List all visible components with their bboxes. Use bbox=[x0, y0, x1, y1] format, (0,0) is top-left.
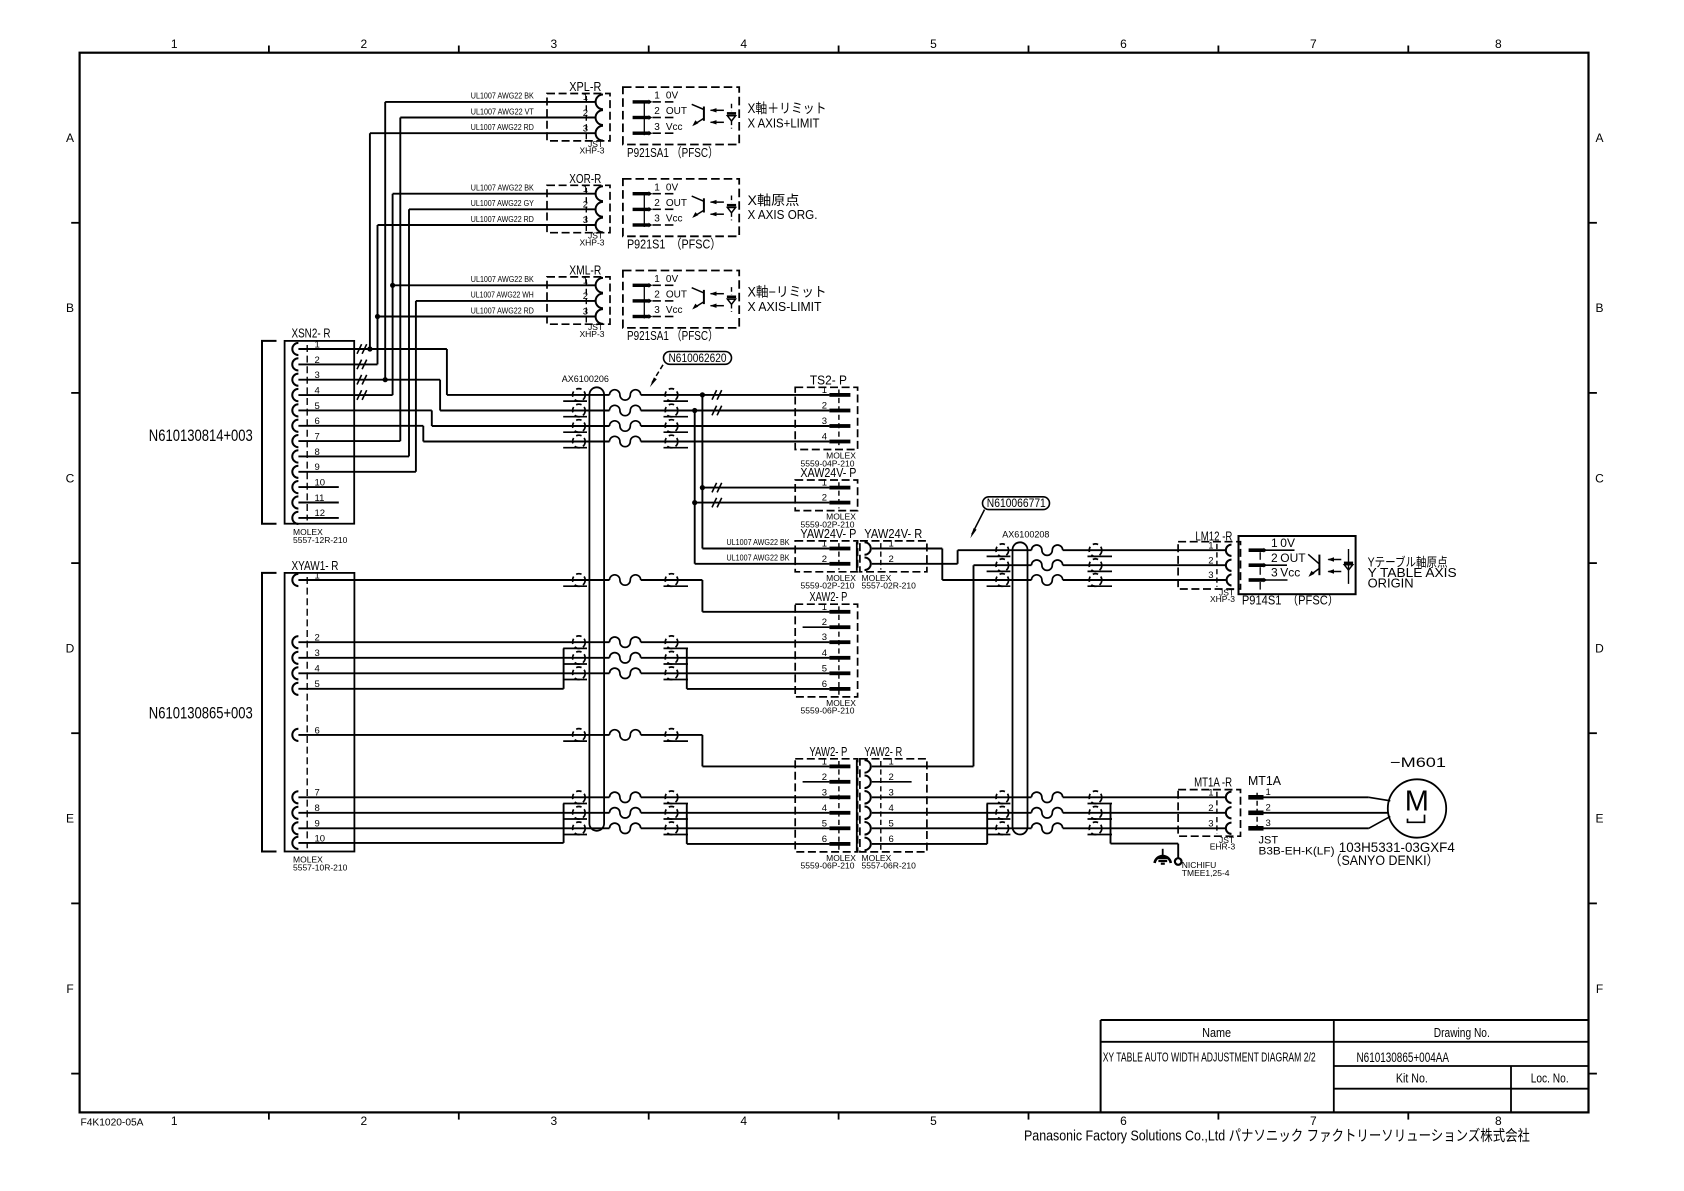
svg-text:N610066771: N610066771 bbox=[987, 498, 1046, 510]
wire XSN2-3 to XPL-R-1 and TS2-P-2 bbox=[298, 102, 595, 411]
svg-text:B: B bbox=[66, 301, 74, 315]
wire XSN2-2 to XOR-R-3 and XML-R-3 bbox=[298, 225, 595, 369]
svg-text:0V: 0V bbox=[666, 274, 679, 285]
connector XAW24V- P (MOLEX 5559-02P-210) bbox=[795, 466, 857, 529]
svg-text:YAW2- R: YAW2- R bbox=[864, 745, 902, 759]
svg-text:6: 6 bbox=[1120, 37, 1127, 51]
svg-text:3: 3 bbox=[315, 370, 320, 381]
wire XSN2-7 to XPL-R-2 bbox=[298, 118, 595, 442]
svg-text:XAW2- P: XAW2- P bbox=[809, 590, 847, 604]
svg-text:3: 3 bbox=[822, 787, 827, 798]
svg-text:2: 2 bbox=[654, 198, 660, 209]
svg-text:6: 6 bbox=[315, 416, 320, 427]
svg-text:Vcc: Vcc bbox=[1280, 566, 1300, 580]
svg-text:N610130814+003: N610130814+003 bbox=[149, 427, 253, 445]
frame column numbers bottom bbox=[171, 1114, 1502, 1128]
wire YAW2-R-1 to cable 2 row 2 (LM12 OUT) bbox=[872, 565, 1226, 766]
svg-text:N610130865+003: N610130865+003 bbox=[149, 705, 253, 723]
svg-text:XAW24V- P: XAW24V- P bbox=[800, 466, 856, 480]
balloon label N610066771 with leader bbox=[970, 497, 1049, 538]
svg-text:9: 9 bbox=[315, 462, 320, 473]
photo sensor P914S1 (Y TABLE AXIS ORIGIN) bbox=[1239, 536, 1356, 594]
svg-text:UL1007 AWG22 BK: UL1007 AWG22 BK bbox=[471, 183, 534, 193]
svg-text:E: E bbox=[66, 812, 74, 826]
connector MT1A (JST B3B-EH-K(LF)) bbox=[1248, 774, 1335, 858]
svg-text:UL1007 AWG22 RD: UL1007 AWG22 RD bbox=[471, 214, 534, 224]
svg-text:C: C bbox=[66, 471, 75, 485]
svg-text:7: 7 bbox=[1310, 1114, 1317, 1128]
svg-text:P914S1 （PFSC）: P914S1 （PFSC） bbox=[1242, 592, 1339, 607]
svg-text:YAW2- P: YAW2- P bbox=[809, 745, 847, 759]
svg-text:UL1007 AWG22 GY: UL1007 AWG22 GY bbox=[471, 198, 534, 208]
svg-text:E: E bbox=[1595, 812, 1603, 826]
svg-text:2: 2 bbox=[822, 493, 827, 504]
svg-text:1: 1 bbox=[315, 339, 320, 350]
cable 1 shield crossings, group to YAW2-P bbox=[563, 791, 688, 835]
svg-text:N610130865+004AA: N610130865+004AA bbox=[1357, 1050, 1450, 1065]
connector XYAW1-R (MOLEX 5557-10R-210) bbox=[285, 559, 355, 873]
connector XSN2-R (MOLEX 5557-12R-210) bbox=[285, 327, 355, 545]
svg-text:D: D bbox=[1595, 642, 1604, 656]
wire XYAW1-2 to XAW2-P-3 bbox=[298, 641, 829, 643]
svg-text:5: 5 bbox=[822, 663, 827, 674]
svg-text:A: A bbox=[1595, 131, 1603, 145]
svg-text:X軸−リミット: X軸−リミット bbox=[748, 285, 827, 300]
cable 1 shield crossings, group to XAW2-P bbox=[563, 636, 688, 680]
motor M601 (103H5331-03GXF4 SANYO DENKI) bbox=[1388, 779, 1446, 837]
svg-text:XHP-3: XHP-3 bbox=[579, 146, 604, 156]
svg-text:1: 1 bbox=[654, 91, 660, 102]
connector XOR-R (JST XHP-3 receptacle) bbox=[547, 172, 610, 247]
earth ground symbol bbox=[1155, 849, 1171, 864]
svg-text:Name: Name bbox=[1202, 1025, 1231, 1040]
connector TS2- P (MOLEX 5559-04P-210) bbox=[795, 373, 857, 468]
wire row D (XSN2-6) to TS2-P-4 bbox=[423, 441, 829, 443]
svg-text:X AXIS-LIMIT: X AXIS-LIMIT bbox=[748, 300, 822, 314]
svg-text:2: 2 bbox=[1208, 803, 1213, 814]
svg-text:5: 5 bbox=[930, 1114, 937, 1128]
svg-text:P921S1 （PFSC）: P921S1 （PFSC） bbox=[627, 237, 721, 252]
svg-text:3: 3 bbox=[1271, 566, 1278, 580]
wire XYAW1-8 to YAW2-P-4 bbox=[298, 812, 829, 814]
wire XYAW1-6 to YAW2-P-1 bbox=[298, 735, 829, 767]
svg-text:YAW24V- P: YAW24V- P bbox=[800, 527, 856, 541]
svg-text:X AXIS ORG.: X AXIS ORG. bbox=[748, 208, 818, 222]
svg-text:UL1007 AWG22 BK: UL1007 AWG22 BK bbox=[727, 552, 790, 562]
wire XSN2-5 to TS2-P-3 bbox=[298, 410, 431, 426]
svg-text:Vcc: Vcc bbox=[666, 305, 683, 316]
svg-text:B3B-EH-K(LF): B3B-EH-K(LF) bbox=[1259, 846, 1335, 858]
svg-text:0V: 0V bbox=[666, 91, 679, 102]
svg-text:Panasonic Factory Solutions Co: Panasonic Factory Solutions Co.,Ltd パナソニ… bbox=[1024, 1127, 1530, 1144]
svg-text:1: 1 bbox=[654, 274, 660, 285]
wire shield drain to earth terminal, right of cable 2 bbox=[1111, 804, 1179, 859]
title block bbox=[1101, 1020, 1589, 1112]
svg-text:UL1007 AWG22 VT: UL1007 AWG22 VT bbox=[471, 106, 534, 116]
svg-text:2: 2 bbox=[1208, 555, 1213, 566]
svg-text:TMEE1,25-4: TMEE1,25-4 bbox=[1182, 868, 1230, 878]
svg-text:3: 3 bbox=[654, 122, 660, 133]
wire row C (XSN2-5) to TS2-P-3 bbox=[432, 425, 830, 427]
svg-text:5559-06P-210: 5559-06P-210 bbox=[801, 706, 855, 716]
svg-text:X AXIS+LIMIT: X AXIS+LIMIT bbox=[748, 116, 820, 130]
photo sensor P921S1 (X AXIS ORG.) bbox=[623, 179, 739, 236]
svg-text:4: 4 bbox=[822, 432, 827, 443]
svg-text:5: 5 bbox=[930, 37, 937, 51]
svg-text:3: 3 bbox=[1208, 819, 1213, 830]
svg-text:Vcc: Vcc bbox=[666, 122, 683, 133]
svg-text:1: 1 bbox=[171, 37, 178, 51]
svg-text:Loc. No.: Loc. No. bbox=[1531, 1071, 1569, 1086]
svg-text:5557-10R-210: 5557-10R-210 bbox=[293, 863, 348, 873]
svg-text:LM12 -R: LM12 -R bbox=[1195, 530, 1232, 544]
svg-text:AX6100208: AX6100208 bbox=[1002, 530, 1049, 540]
svg-text:3: 3 bbox=[550, 37, 557, 51]
cable 2 shield crossings, motor group bbox=[987, 791, 1112, 835]
svg-text:XHP-3: XHP-3 bbox=[1210, 594, 1235, 604]
svg-text:UL1007 AWG22 BK: UL1007 AWG22 BK bbox=[471, 91, 534, 101]
svg-text:P921SA1 （PFSC）: P921SA1 （PFSC） bbox=[627, 328, 718, 343]
svg-text:8: 8 bbox=[1495, 37, 1502, 51]
svg-text:MT1A -R: MT1A -R bbox=[1194, 775, 1232, 789]
wire XYAW1-3 to XAW2-P-4 bbox=[298, 657, 829, 659]
svg-text:X軸＋リミット: X軸＋リミット bbox=[748, 101, 827, 116]
label X軸−リミット / X AXIS-LIMIT bbox=[748, 285, 827, 314]
svg-text:0V: 0V bbox=[666, 182, 679, 193]
svg-text:UL1007 AWG22 RD: UL1007 AWG22 RD bbox=[471, 305, 534, 315]
wire XYAW1-4 to XAW2-P-5 bbox=[298, 672, 829, 674]
svg-text:2: 2 bbox=[822, 554, 827, 565]
svg-text:2: 2 bbox=[315, 355, 320, 366]
frame column numbers top bbox=[171, 37, 1502, 51]
cable 2 shield crossings, sensor group bbox=[987, 544, 1112, 586]
svg-text:Vcc: Vcc bbox=[666, 214, 683, 225]
wire YAW24V-R-1 to cable 2 row 3 (LM12 Vcc) bbox=[872, 549, 1226, 581]
wire YAW24V-R-2 to cable 2 row 1 (LM12 0V) bbox=[872, 550, 1226, 564]
connector LM12-R (JST XHP-3) bbox=[1178, 530, 1240, 604]
svg-text:2: 2 bbox=[361, 1114, 368, 1128]
wire XYAW1-7 to YAW2-P-3 bbox=[298, 796, 829, 798]
svg-text:OUT: OUT bbox=[666, 290, 687, 301]
wire XYAW1-5 shield drain, left of cable 1 bbox=[298, 648, 563, 688]
svg-text:OUT: OUT bbox=[666, 198, 687, 209]
wire row A (XSN2-1) to TS2-P-1 with branch to XAW24V-P-1 and YAW24V-P-1 bbox=[447, 390, 830, 548]
svg-text:UL1007 AWG22 RD: UL1007 AWG22 RD bbox=[471, 122, 534, 132]
svg-text:2: 2 bbox=[654, 106, 660, 117]
svg-text:XHP-3: XHP-3 bbox=[579, 329, 604, 339]
svg-text:P921SA1 （PFSC）: P921SA1 （PFSC） bbox=[627, 145, 718, 160]
cable AX6100206 jacket bbox=[562, 374, 609, 831]
wire shield drain to XAW2-P-6, right of cable 1 bbox=[687, 648, 830, 689]
svg-text:OUT: OUT bbox=[1280, 551, 1306, 565]
wire XSN2-8 to XOR-R-2 bbox=[298, 209, 595, 456]
svg-text:F: F bbox=[66, 982, 73, 996]
wire XYAW1-10 shield drain, left of cable 1 bbox=[298, 804, 563, 843]
svg-text:7: 7 bbox=[1310, 37, 1317, 51]
svg-text:A: A bbox=[66, 131, 74, 145]
photo sensor P921SA1 (X AXIS-LIMIT) bbox=[623, 271, 739, 328]
svg-text:8: 8 bbox=[1495, 1114, 1502, 1128]
wire YAW2-R-6 shield drain, left of cable 2 bbox=[872, 804, 987, 844]
svg-text:TS2- P: TS2- P bbox=[810, 373, 847, 387]
connector YAW2- P (MOLEX 5559-06P-210) bbox=[795, 745, 857, 871]
svg-text:4: 4 bbox=[740, 1114, 747, 1128]
svg-text:Drawing No.: Drawing No. bbox=[1434, 1025, 1490, 1040]
svg-text:YAW24V- R: YAW24V- R bbox=[864, 527, 922, 541]
connector MT1A-R (JST EHR-3) bbox=[1178, 775, 1240, 851]
frame row letters left bbox=[66, 131, 75, 996]
wire XSN2-1 to XPL-R-3 and TS2-P-1 bbox=[298, 133, 595, 395]
svg-text:5: 5 bbox=[822, 818, 827, 829]
svg-text:1: 1 bbox=[654, 182, 660, 193]
svg-text:5: 5 bbox=[315, 401, 320, 412]
wire XSN2-4 to XOR-R-1 and XML-R-1 bbox=[298, 194, 595, 400]
svg-text:6: 6 bbox=[822, 834, 827, 845]
svg-text:MT1A: MT1A bbox=[1248, 774, 1282, 788]
svg-text:4: 4 bbox=[740, 37, 747, 51]
crimp terminal NICHIFU TMEE1,25-4 bbox=[1175, 858, 1230, 878]
cable 1 shield crossings, wire XYAW1-6 bbox=[563, 729, 688, 742]
svg-text:3: 3 bbox=[654, 214, 660, 225]
balloon label N610062620 with dashed leader bbox=[650, 352, 732, 388]
photo sensor P921SA1 (X AXIS+LIMIT) bbox=[623, 87, 739, 144]
svg-text:ORIGIN: ORIGIN bbox=[1368, 577, 1414, 591]
connector YAW2- R (MOLEX 5557-06R-210) bbox=[857, 745, 927, 871]
svg-text:XSN2- R: XSN2- R bbox=[292, 327, 331, 341]
svg-text:2: 2 bbox=[1271, 551, 1278, 565]
svg-text:−M601: −M601 bbox=[1390, 754, 1446, 770]
svg-text:UL1007 AWG22 BK: UL1007 AWG22 BK bbox=[471, 274, 534, 284]
svg-text:2: 2 bbox=[822, 401, 827, 412]
svg-text:（SANYO DENKI）: （SANYO DENKI） bbox=[1329, 853, 1439, 868]
svg-text:XPL-R: XPL-R bbox=[569, 80, 601, 94]
svg-text:XHP-3: XHP-3 bbox=[579, 237, 604, 247]
wire XYAW1-9 to YAW2-P-5 bbox=[298, 827, 829, 829]
svg-text:5557-02R-210: 5557-02R-210 bbox=[862, 581, 917, 591]
frame row letters right bbox=[1595, 131, 1604, 996]
svg-text:XOR-R: XOR-R bbox=[569, 172, 601, 186]
svg-text:3: 3 bbox=[550, 1114, 557, 1128]
cable 1 shield crossings and twists, group to TS2-P bbox=[563, 389, 688, 448]
svg-text:5557-12R-210: 5557-12R-210 bbox=[293, 535, 348, 545]
svg-text:1: 1 bbox=[171, 1114, 178, 1128]
wires YAW2-R-3,4,5 to MT1A-R-1,2,3 through cable 2 bbox=[872, 797, 1226, 828]
svg-text:C: C bbox=[1595, 471, 1604, 485]
bracket for XYAW1-R cable assembly bbox=[262, 573, 277, 852]
bracket for XSN2-R cable assembly bbox=[262, 341, 277, 524]
svg-text:N610062620: N610062620 bbox=[669, 353, 727, 365]
svg-text:1: 1 bbox=[1271, 536, 1278, 550]
connector YAW24V- P (MOLEX 5559-02P-210) bbox=[795, 527, 857, 591]
svg-text:5559-06P-210: 5559-06P-210 bbox=[801, 861, 855, 871]
wire row B (XSN2-3) to TS2-P-2 with branch to XAW24V-P-2 and YAW24V-P-2 bbox=[440, 406, 829, 564]
cable AX6100208 jacket bbox=[1002, 530, 1049, 835]
cable 1 shield crossings, wire XYAW1-1 bbox=[563, 574, 688, 587]
svg-text:OUT: OUT bbox=[666, 106, 687, 117]
svg-text:M: M bbox=[1405, 786, 1429, 818]
wire XSN2-9 to XML-R-2 bbox=[298, 301, 595, 472]
connector XPL-R (JST XHP-3 receptacle) bbox=[547, 80, 610, 155]
svg-text:EHR-3: EHR-3 bbox=[1210, 842, 1236, 852]
svg-text:AX6100206: AX6100206 bbox=[562, 374, 609, 384]
svg-text:XYAW1- R: XYAW1- R bbox=[292, 559, 339, 573]
wire XYAW1-1 to XAW2-P-1 bbox=[298, 580, 829, 612]
svg-text:F: F bbox=[1596, 982, 1603, 996]
svg-text:UL1007 AWG22 WH: UL1007 AWG22 WH bbox=[471, 290, 534, 300]
connector YAW24V- R (MOLEX 5557-02R-210) bbox=[857, 527, 927, 591]
connector XML-R (JST XHP-3 receptacle) bbox=[547, 264, 610, 339]
wire XSN2-6 to TS2-P-4 bbox=[298, 426, 423, 442]
svg-text:D: D bbox=[66, 642, 75, 656]
label X軸＋リミット / X AXIS+LIMIT bbox=[748, 101, 827, 130]
svg-text:7: 7 bbox=[315, 432, 320, 443]
svg-text:XY TABLE AUTO WIDTH ADJUSTMENT: XY TABLE AUTO WIDTH ADJUSTMENT DIAGRAM 2… bbox=[1103, 1050, 1316, 1065]
wire shield drain to YAW2-P-6, right of cable 1 bbox=[687, 804, 830, 844]
svg-text:2: 2 bbox=[1266, 802, 1271, 813]
wires MT1A to motor M601 bbox=[1264, 797, 1391, 828]
svg-text:2: 2 bbox=[654, 290, 660, 301]
svg-text:XML-R: XML-R bbox=[569, 264, 601, 278]
svg-text:5557-06R-210: 5557-06R-210 bbox=[862, 861, 917, 871]
svg-text:3: 3 bbox=[654, 305, 660, 316]
svg-text:4: 4 bbox=[822, 803, 827, 814]
svg-text:1: 1 bbox=[1266, 787, 1271, 798]
label Yテーブル軸原点 / Y TABLE AXIS ORIGIN bbox=[1368, 555, 1457, 591]
svg-text:X軸原点: X軸原点 bbox=[748, 193, 800, 208]
connector XAW2- P (MOLEX 5559-06P-210) bbox=[795, 590, 857, 716]
svg-text:3: 3 bbox=[1266, 818, 1271, 829]
svg-text:0V: 0V bbox=[1280, 536, 1295, 550]
svg-text:6: 6 bbox=[822, 679, 827, 690]
svg-text:3: 3 bbox=[822, 416, 827, 427]
svg-text:5559-02P-210: 5559-02P-210 bbox=[801, 581, 855, 591]
svg-text:2: 2 bbox=[361, 37, 368, 51]
svg-text:4: 4 bbox=[822, 648, 827, 659]
svg-text:3: 3 bbox=[1208, 570, 1213, 581]
svg-text:F4K1020-05A: F4K1020-05A bbox=[81, 1117, 144, 1128]
svg-text:8: 8 bbox=[315, 447, 320, 458]
svg-text:3: 3 bbox=[822, 632, 827, 643]
svg-text:UL1007 AWG22 BK: UL1007 AWG22 BK bbox=[727, 537, 790, 547]
svg-text:Kit No.: Kit No. bbox=[1396, 1071, 1428, 1086]
svg-text:6: 6 bbox=[1120, 1114, 1127, 1128]
label X軸原点 / X AXIS ORG. bbox=[748, 193, 818, 222]
svg-text:4: 4 bbox=[315, 385, 320, 396]
svg-text:B: B bbox=[1595, 301, 1603, 315]
